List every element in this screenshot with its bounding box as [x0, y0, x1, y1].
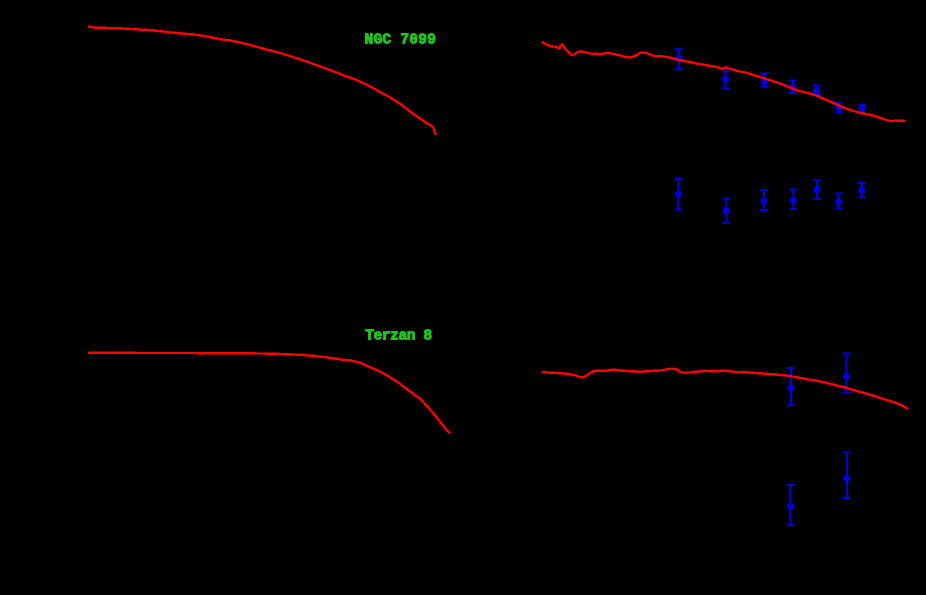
- point L4: [790, 189, 798, 209]
- panel top-right: model curve (red): [543, 42, 905, 121]
- panel top-right: upper data points (blue): [675, 49, 866, 113]
- point P2: [722, 72, 730, 89]
- panel bottom-right: data points (blue): [787, 354, 851, 525]
- panel bottom-left: model curve Terzan 8: [89, 353, 450, 433]
- point U1: [787, 368, 795, 405]
- point D1: [787, 485, 795, 525]
- point L7: [858, 183, 866, 197]
- point L6: [835, 193, 843, 208]
- panel top-right: lower data points (blue): [675, 179, 866, 223]
- point L1: [675, 179, 683, 209]
- point U2: [843, 354, 851, 393]
- point P1: [675, 49, 683, 69]
- panel bottom-right: model curve (red): [543, 369, 908, 409]
- svg-text:Terzan 8: Terzan 8: [365, 329, 432, 345]
- point L5: [813, 180, 821, 198]
- point P6: [835, 103, 843, 113]
- point D2: [843, 453, 851, 498]
- point P4: [789, 80, 797, 93]
- panel top-left: model curve NGC 7099: [89, 27, 436, 134]
- svg-text:NGC 7099: NGC 7099: [365, 33, 437, 49]
- point P3: [761, 74, 769, 87]
- point P7: [859, 105, 867, 114]
- point P5: [813, 85, 821, 95]
- point L3: [760, 190, 768, 210]
- point L2: [723, 199, 731, 224]
